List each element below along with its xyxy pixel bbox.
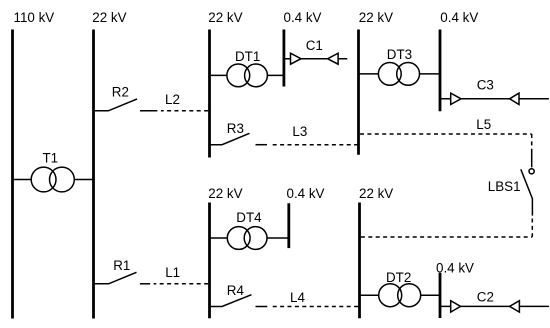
svg-text:T1: T1 (43, 150, 59, 165)
svg-text:22 kV: 22 kV (208, 186, 242, 201)
svg-text:110 kV: 110 kV (14, 10, 55, 25)
svg-text:0.4 kV: 0.4 kV (440, 10, 478, 25)
svg-text:22 kV: 22 kV (92, 10, 126, 25)
svg-text:22 kV: 22 kV (208, 10, 242, 25)
svg-text:R2: R2 (112, 84, 129, 99)
svg-text:L1: L1 (165, 265, 180, 280)
svg-text:C3: C3 (477, 78, 494, 93)
svg-text:0.4 kV: 0.4 kV (284, 10, 322, 25)
svg-text:22 kV: 22 kV (359, 10, 393, 25)
svg-text:22 kV: 22 kV (359, 186, 393, 201)
svg-text:DT3: DT3 (387, 47, 412, 62)
svg-text:0.4 kV: 0.4 kV (287, 186, 325, 201)
svg-text:C2: C2 (477, 290, 494, 305)
svg-text:R3: R3 (227, 121, 244, 136)
svg-text:R1: R1 (113, 258, 130, 273)
svg-text:LBS1: LBS1 (488, 179, 521, 194)
svg-text:L3: L3 (292, 124, 307, 139)
svg-text:DT1: DT1 (235, 49, 260, 64)
svg-text:DT2: DT2 (386, 270, 411, 285)
svg-text:C1: C1 (306, 38, 323, 53)
svg-text:R4: R4 (227, 283, 245, 298)
svg-text:0.4 kV: 0.4 kV (436, 261, 474, 276)
svg-text:DT4: DT4 (236, 210, 262, 225)
svg-text:L4: L4 (290, 290, 305, 305)
svg-text:L5: L5 (476, 117, 491, 132)
svg-text:L2: L2 (165, 92, 180, 107)
